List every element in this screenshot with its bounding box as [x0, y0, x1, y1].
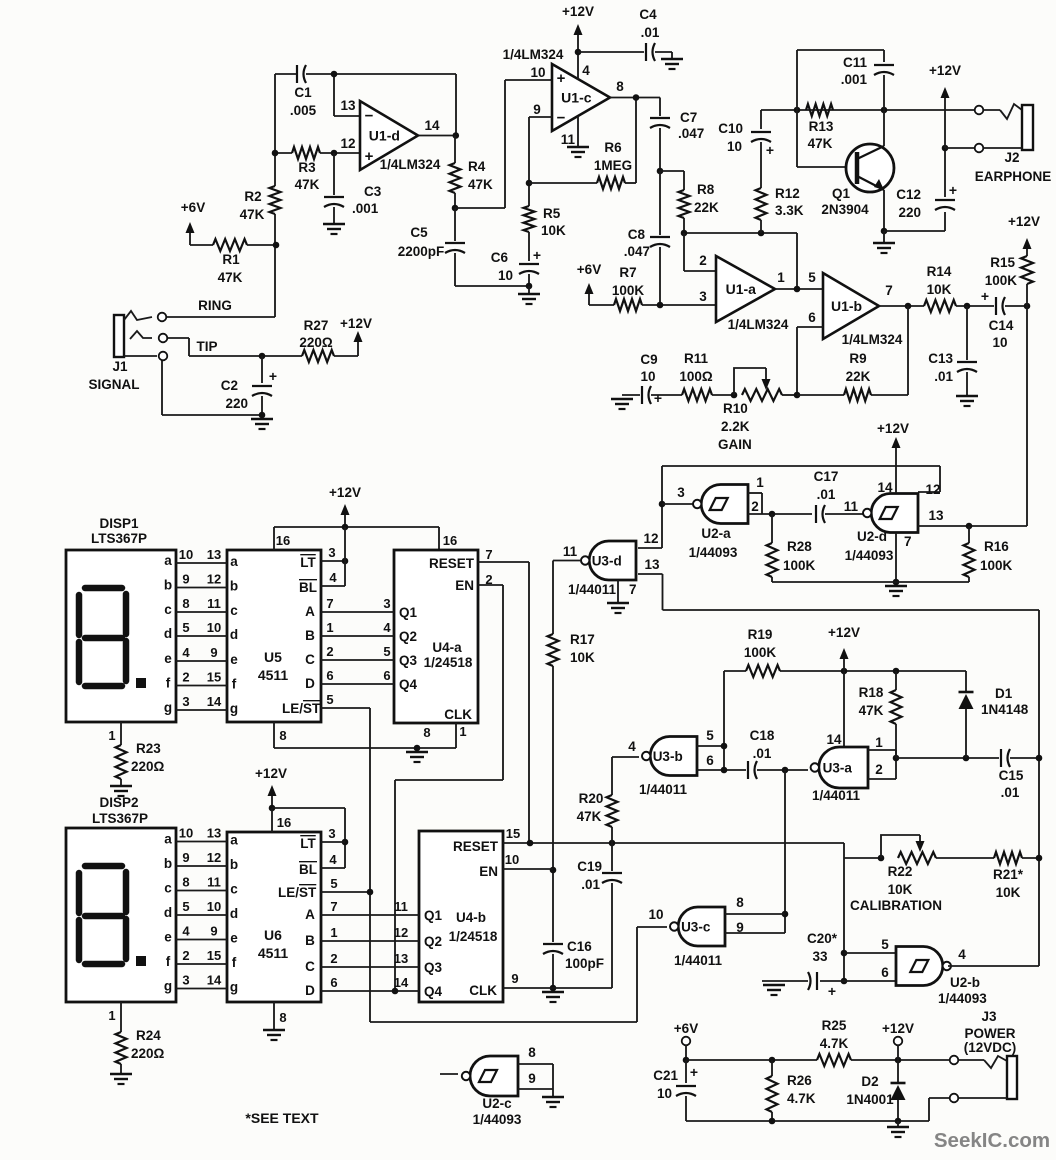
svg-text:4: 4	[329, 852, 337, 867]
svg-text:R11: R11	[684, 351, 709, 366]
svg-text:R19: R19	[748, 627, 773, 642]
svg-text:D: D	[305, 676, 315, 691]
svg-text:10K: 10K	[996, 885, 1021, 900]
svg-text:+: +	[766, 142, 774, 158]
svg-text:1: 1	[875, 735, 883, 750]
svg-text:4: 4	[329, 570, 337, 585]
svg-text:47K: 47K	[295, 177, 320, 192]
svg-text:R20: R20	[579, 791, 604, 806]
svg-text:220Ω: 220Ω	[131, 1046, 165, 1061]
svg-text:C12: C12	[896, 187, 921, 202]
svg-text:220: 220	[898, 205, 921, 220]
svg-text:SIGNAL: SIGNAL	[88, 377, 139, 392]
svg-text:13: 13	[207, 547, 221, 562]
svg-text:R12: R12	[775, 186, 800, 201]
svg-text:g: g	[230, 701, 238, 716]
svg-text:TIP: TIP	[196, 339, 217, 354]
svg-text:Q2: Q2	[399, 629, 417, 644]
svg-text:14: 14	[207, 694, 222, 709]
svg-text:LTS367P: LTS367P	[91, 531, 147, 546]
svg-text:13: 13	[207, 826, 221, 841]
svg-text:6: 6	[326, 668, 333, 683]
svg-text:.01: .01	[934, 369, 953, 384]
svg-text:2200pF: 2200pF	[398, 244, 445, 259]
svg-text:U1-d: U1-d	[369, 128, 400, 144]
svg-text:1: 1	[108, 728, 115, 743]
svg-text:5: 5	[330, 876, 337, 891]
svg-text:U2-a: U2-a	[701, 526, 731, 541]
svg-text:+12V: +12V	[255, 766, 287, 781]
svg-text:+: +	[533, 247, 541, 263]
svg-text:e: e	[230, 652, 238, 667]
svg-text:C6: C6	[491, 250, 509, 265]
svg-text:8: 8	[736, 895, 744, 910]
svg-text:12: 12	[643, 531, 658, 546]
svg-text:Q4: Q4	[424, 984, 443, 999]
svg-text:g: g	[164, 700, 172, 715]
svg-text:e: e	[230, 931, 238, 946]
svg-text:C16: C16	[567, 939, 592, 954]
svg-text:DISP2: DISP2	[99, 795, 138, 810]
svg-text:1MEG: 1MEG	[594, 158, 632, 173]
svg-text:1: 1	[756, 475, 764, 490]
svg-text:LT: LT	[300, 555, 316, 570]
svg-text:J2: J2	[1004, 150, 1019, 165]
svg-text:R7: R7	[619, 265, 636, 280]
svg-text:8: 8	[182, 875, 189, 890]
svg-text:7: 7	[629, 582, 637, 597]
svg-text:U2-c: U2-c	[482, 1096, 512, 1111]
svg-text:1: 1	[777, 270, 785, 285]
svg-text:4: 4	[182, 924, 190, 939]
svg-text:2: 2	[182, 948, 189, 963]
svg-text:12: 12	[340, 136, 355, 151]
svg-text:1/44011: 1/44011	[812, 788, 861, 803]
svg-text:C4: C4	[639, 7, 657, 22]
svg-text:16: 16	[276, 533, 290, 548]
svg-text:11: 11	[561, 132, 576, 147]
svg-text:R22: R22	[888, 864, 913, 879]
svg-text:J1: J1	[112, 359, 128, 374]
svg-text:U3-d: U3-d	[592, 554, 622, 569]
svg-text:47K: 47K	[577, 809, 602, 824]
svg-text:10: 10	[179, 547, 193, 562]
svg-text:Q1: Q1	[399, 605, 418, 620]
svg-text:.047: .047	[678, 126, 704, 141]
svg-text:10: 10	[530, 65, 545, 80]
svg-text:100K: 100K	[985, 273, 1018, 288]
svg-text:16: 16	[277, 815, 291, 830]
svg-text:R3: R3	[298, 160, 316, 175]
svg-text:C18: C18	[750, 728, 775, 743]
svg-text:47K: 47K	[808, 136, 833, 151]
svg-text:11: 11	[207, 875, 221, 890]
svg-text:D2: D2	[861, 1074, 878, 1089]
svg-text:f: f	[166, 954, 171, 969]
svg-text:5: 5	[706, 728, 714, 743]
svg-text:C11: C11	[843, 55, 868, 70]
svg-text:A: A	[305, 604, 315, 619]
svg-text:10K: 10K	[888, 882, 913, 897]
svg-text:e: e	[164, 930, 172, 945]
svg-text:g: g	[164, 979, 172, 994]
svg-text:C: C	[305, 652, 315, 667]
svg-text:47K: 47K	[218, 270, 243, 285]
svg-text:1/44011: 1/44011	[568, 582, 617, 597]
svg-text:+12V: +12V	[828, 625, 860, 640]
svg-text:GAIN: GAIN	[718, 437, 752, 452]
svg-text:16: 16	[443, 533, 457, 548]
svg-text:J3: J3	[981, 1009, 997, 1024]
svg-text:11: 11	[207, 596, 221, 611]
svg-text:+12V: +12V	[562, 4, 594, 19]
svg-text:4.7K: 4.7K	[787, 1091, 816, 1106]
svg-text:2.2K: 2.2K	[721, 419, 750, 434]
svg-text:.01: .01	[581, 877, 600, 892]
svg-text:+: +	[269, 368, 277, 384]
svg-text:a: a	[230, 554, 238, 569]
svg-text:RESET: RESET	[429, 556, 475, 571]
svg-text:R21*: R21*	[993, 867, 1024, 882]
svg-text:1N4148: 1N4148	[981, 702, 1029, 717]
svg-text:R8: R8	[697, 182, 715, 197]
svg-text:B: B	[305, 628, 315, 643]
svg-text:R28: R28	[787, 539, 812, 554]
svg-text:100K: 100K	[744, 645, 777, 660]
svg-text:7: 7	[904, 534, 912, 549]
svg-text:1/4LM324: 1/4LM324	[503, 47, 564, 62]
svg-text:R10: R10	[723, 401, 748, 416]
svg-text:100Ω: 100Ω	[679, 369, 713, 384]
svg-text:12: 12	[207, 850, 221, 865]
svg-text:6: 6	[706, 753, 714, 768]
svg-text:+: +	[557, 70, 566, 87]
svg-text:A: A	[305, 907, 315, 922]
svg-text:6: 6	[330, 975, 337, 990]
svg-text:C17: C17	[814, 469, 839, 484]
svg-text:R27: R27	[304, 318, 329, 333]
svg-text:a: a	[164, 832, 172, 847]
svg-text:15: 15	[506, 826, 520, 841]
svg-text:C19: C19	[577, 859, 602, 874]
svg-text:14: 14	[877, 480, 893, 495]
svg-text:12: 12	[925, 482, 940, 497]
svg-text:13: 13	[644, 557, 660, 572]
svg-text:13: 13	[394, 951, 408, 966]
svg-text:DISP1: DISP1	[99, 516, 139, 531]
svg-text:Q4: Q4	[399, 677, 418, 692]
svg-text:6: 6	[808, 310, 816, 325]
svg-text:1/4LM324: 1/4LM324	[842, 332, 903, 347]
svg-text:9: 9	[210, 924, 217, 939]
svg-text:10K: 10K	[541, 223, 566, 238]
svg-text:b: b	[230, 579, 238, 594]
svg-text:10: 10	[648, 907, 663, 922]
svg-text:Q1: Q1	[424, 908, 443, 923]
svg-text:R24: R24	[136, 1028, 161, 1043]
svg-text:100K: 100K	[783, 558, 816, 573]
svg-text:9: 9	[182, 850, 189, 865]
svg-text:10: 10	[498, 268, 513, 283]
svg-text:C9: C9	[640, 352, 657, 367]
svg-text:R13: R13	[809, 119, 834, 134]
svg-text:C13: C13	[928, 351, 953, 366]
svg-text:1: 1	[108, 1008, 115, 1023]
svg-text:3: 3	[328, 826, 335, 841]
svg-text:220: 220	[225, 396, 248, 411]
svg-text:C2: C2	[221, 378, 238, 393]
svg-text:.01: .01	[641, 25, 660, 40]
svg-text:6: 6	[383, 668, 390, 683]
svg-text:11: 11	[563, 544, 578, 559]
svg-text:8: 8	[423, 725, 430, 740]
svg-text:U1-a: U1-a	[726, 281, 757, 297]
svg-text:CALIBRATION: CALIBRATION	[850, 898, 942, 913]
svg-text:R6: R6	[604, 140, 622, 155]
svg-text:4: 4	[582, 63, 590, 78]
svg-text:R26: R26	[787, 1073, 812, 1088]
svg-text:R23: R23	[136, 741, 161, 756]
svg-text:5: 5	[182, 620, 189, 635]
svg-text:4: 4	[383, 620, 391, 635]
svg-text:1: 1	[326, 620, 333, 635]
svg-text:*SEE TEXT: *SEE TEXT	[245, 1110, 319, 1126]
svg-text:1/44093: 1/44093	[689, 545, 738, 560]
svg-text:U3-b: U3-b	[653, 749, 683, 764]
svg-text:3: 3	[677, 485, 685, 500]
svg-text:+: +	[690, 1064, 698, 1080]
svg-text:4: 4	[182, 645, 190, 660]
svg-text:C14: C14	[989, 318, 1014, 333]
svg-text:U1-b: U1-b	[831, 298, 862, 314]
svg-text:5: 5	[881, 937, 889, 952]
svg-text:a: a	[164, 553, 172, 568]
svg-text:+: +	[949, 182, 957, 198]
svg-text:C5: C5	[410, 225, 428, 240]
svg-text:2: 2	[330, 951, 337, 966]
svg-text:U2-b: U2-b	[950, 975, 980, 990]
svg-text:3: 3	[699, 289, 707, 304]
svg-text:+12V: +12V	[1008, 214, 1040, 229]
svg-text:+12V: +12V	[882, 1021, 914, 1036]
svg-text:R25: R25	[822, 1018, 847, 1033]
svg-text:1/4LM324: 1/4LM324	[380, 157, 441, 172]
svg-text:c: c	[164, 881, 172, 896]
svg-text:+12V: +12V	[329, 485, 361, 500]
svg-text:C: C	[305, 959, 315, 974]
svg-text:R2: R2	[244, 189, 261, 204]
svg-text:1/44093: 1/44093	[845, 548, 894, 563]
svg-text:d: d	[164, 905, 172, 920]
svg-text:12: 12	[394, 925, 408, 940]
svg-text:220Ω: 220Ω	[299, 335, 333, 350]
svg-text:+12V: +12V	[877, 421, 909, 436]
svg-text:Q3: Q3	[424, 960, 443, 975]
svg-text:.01: .01	[753, 746, 772, 761]
svg-text:10: 10	[207, 899, 221, 914]
svg-text:1/44011: 1/44011	[639, 782, 688, 797]
svg-text:RING: RING	[198, 298, 232, 313]
svg-text:10: 10	[640, 369, 655, 384]
svg-text:f: f	[166, 676, 171, 691]
svg-text:U3-c: U3-c	[681, 920, 711, 935]
svg-text:9: 9	[533, 102, 541, 117]
svg-text:C7: C7	[680, 110, 697, 125]
svg-text:+6V: +6V	[181, 200, 205, 215]
svg-text:+: +	[365, 148, 374, 165]
svg-text:22K: 22K	[846, 369, 871, 384]
svg-text:U4-a: U4-a	[432, 640, 462, 655]
svg-text:C8: C8	[628, 227, 646, 242]
svg-text:LE/ST: LE/ST	[282, 701, 321, 716]
svg-text:2: 2	[875, 762, 883, 777]
svg-text:C1: C1	[294, 85, 312, 100]
svg-text:2: 2	[182, 670, 189, 685]
svg-text:R14: R14	[927, 264, 952, 279]
svg-text:2: 2	[326, 644, 333, 659]
svg-text:47K: 47K	[859, 703, 884, 718]
svg-text:a: a	[230, 833, 238, 848]
svg-text:4511: 4511	[258, 667, 289, 683]
svg-text:7: 7	[485, 547, 492, 562]
svg-text:b: b	[164, 578, 172, 593]
svg-text:R9: R9	[849, 351, 866, 366]
svg-text:47K: 47K	[240, 207, 265, 222]
svg-text:f: f	[232, 677, 237, 692]
svg-text:1/44093: 1/44093	[473, 1112, 522, 1127]
svg-text:CLK: CLK	[444, 707, 472, 722]
svg-text:1N4001: 1N4001	[846, 1092, 894, 1107]
svg-text:15: 15	[207, 948, 221, 963]
svg-text:3: 3	[182, 973, 189, 988]
svg-text:5: 5	[326, 692, 333, 707]
svg-text:c: c	[164, 602, 172, 617]
svg-text:R5: R5	[543, 206, 561, 221]
svg-text:2: 2	[699, 253, 707, 268]
svg-text:11: 11	[394, 899, 408, 914]
svg-text:+6V: +6V	[674, 1021, 698, 1036]
svg-text:9: 9	[528, 1071, 536, 1086]
svg-text:BL: BL	[299, 580, 317, 595]
svg-text:BL: BL	[299, 862, 317, 877]
svg-text:5: 5	[182, 899, 189, 914]
svg-text:1: 1	[330, 925, 337, 940]
svg-text:22K: 22K	[694, 200, 719, 215]
svg-text:4: 4	[628, 739, 636, 754]
svg-text:13: 13	[340, 98, 356, 113]
svg-text:7: 7	[885, 283, 893, 298]
svg-text:−: −	[557, 109, 566, 126]
svg-text:R15: R15	[990, 255, 1015, 270]
svg-text:d: d	[164, 626, 172, 641]
svg-text:3: 3	[383, 596, 390, 611]
svg-text:R17: R17	[570, 632, 595, 647]
svg-text:EN: EN	[479, 864, 498, 879]
svg-text:C10: C10	[718, 121, 743, 136]
svg-text:C3: C3	[364, 184, 382, 199]
svg-text:12: 12	[207, 572, 221, 587]
svg-text:C20*: C20*	[807, 931, 838, 946]
svg-text:8: 8	[182, 596, 189, 611]
svg-text:.001: .001	[841, 72, 868, 87]
svg-text:U3-a: U3-a	[823, 761, 853, 776]
svg-text:d: d	[230, 627, 238, 642]
svg-text:c: c	[230, 882, 238, 897]
svg-text:.01: .01	[1001, 785, 1020, 800]
svg-text:6: 6	[881, 965, 889, 980]
svg-text:11: 11	[844, 499, 859, 514]
svg-text:9: 9	[736, 920, 744, 935]
svg-text:13: 13	[928, 508, 944, 523]
svg-text:5: 5	[383, 644, 390, 659]
svg-text:10: 10	[727, 139, 742, 154]
svg-text:Q1: Q1	[832, 186, 851, 201]
svg-text:3: 3	[328, 545, 335, 560]
svg-text:2: 2	[751, 499, 759, 514]
svg-text:100K: 100K	[612, 283, 645, 298]
svg-text:POWER: POWER	[964, 1026, 1015, 1041]
svg-text:2N3904: 2N3904	[821, 202, 869, 217]
svg-text:Q2: Q2	[424, 934, 442, 949]
svg-text:7: 7	[326, 596, 333, 611]
svg-text:R4: R4	[468, 159, 486, 174]
svg-text:3: 3	[182, 694, 189, 709]
svg-text:(12VDC): (12VDC)	[964, 1040, 1017, 1055]
svg-text:14: 14	[207, 973, 222, 988]
svg-text:R16: R16	[984, 539, 1009, 554]
svg-text:U4-b: U4-b	[456, 910, 486, 925]
svg-text:+: +	[981, 288, 989, 304]
svg-text:Q3: Q3	[399, 653, 418, 668]
svg-text:C15: C15	[999, 768, 1024, 783]
svg-text:.001: .001	[352, 201, 379, 216]
svg-text:R18: R18	[859, 685, 884, 700]
svg-text:LTS367P: LTS367P	[92, 811, 148, 826]
svg-text:7: 7	[330, 899, 337, 914]
svg-text:14: 14	[424, 118, 440, 133]
svg-text:10: 10	[207, 620, 221, 635]
svg-text:e: e	[164, 651, 172, 666]
svg-text:B: B	[305, 933, 315, 948]
svg-text:100K: 100K	[980, 558, 1013, 573]
svg-text:14: 14	[394, 975, 409, 990]
svg-text:8: 8	[279, 728, 286, 743]
svg-text:220Ω: 220Ω	[131, 759, 165, 774]
svg-text:10K: 10K	[570, 650, 595, 665]
svg-text:D1: D1	[995, 686, 1013, 701]
svg-text:U2-d: U2-d	[857, 529, 887, 544]
svg-text:100pF: 100pF	[565, 956, 604, 971]
svg-text:1/44011: 1/44011	[674, 953, 723, 968]
svg-text:4: 4	[958, 947, 966, 962]
svg-text:5: 5	[808, 270, 816, 285]
svg-text:U6: U6	[264, 927, 282, 943]
svg-text:8: 8	[616, 79, 624, 94]
svg-text:d: d	[230, 906, 238, 921]
svg-text:U1-c: U1-c	[561, 90, 592, 106]
svg-text:1/24518: 1/24518	[424, 655, 473, 670]
svg-text:EARPHONE: EARPHONE	[975, 169, 1052, 184]
svg-text:SeekIC.com: SeekIC.com	[934, 1129, 1050, 1152]
svg-text:1/44093: 1/44093	[938, 991, 987, 1006]
svg-text:15: 15	[207, 670, 221, 685]
svg-text:.005: .005	[290, 103, 317, 118]
svg-text:D: D	[305, 983, 315, 998]
svg-text:−: −	[365, 107, 374, 124]
svg-text:b: b	[230, 857, 238, 872]
svg-text:14: 14	[826, 732, 842, 747]
svg-text:10K: 10K	[927, 282, 952, 297]
